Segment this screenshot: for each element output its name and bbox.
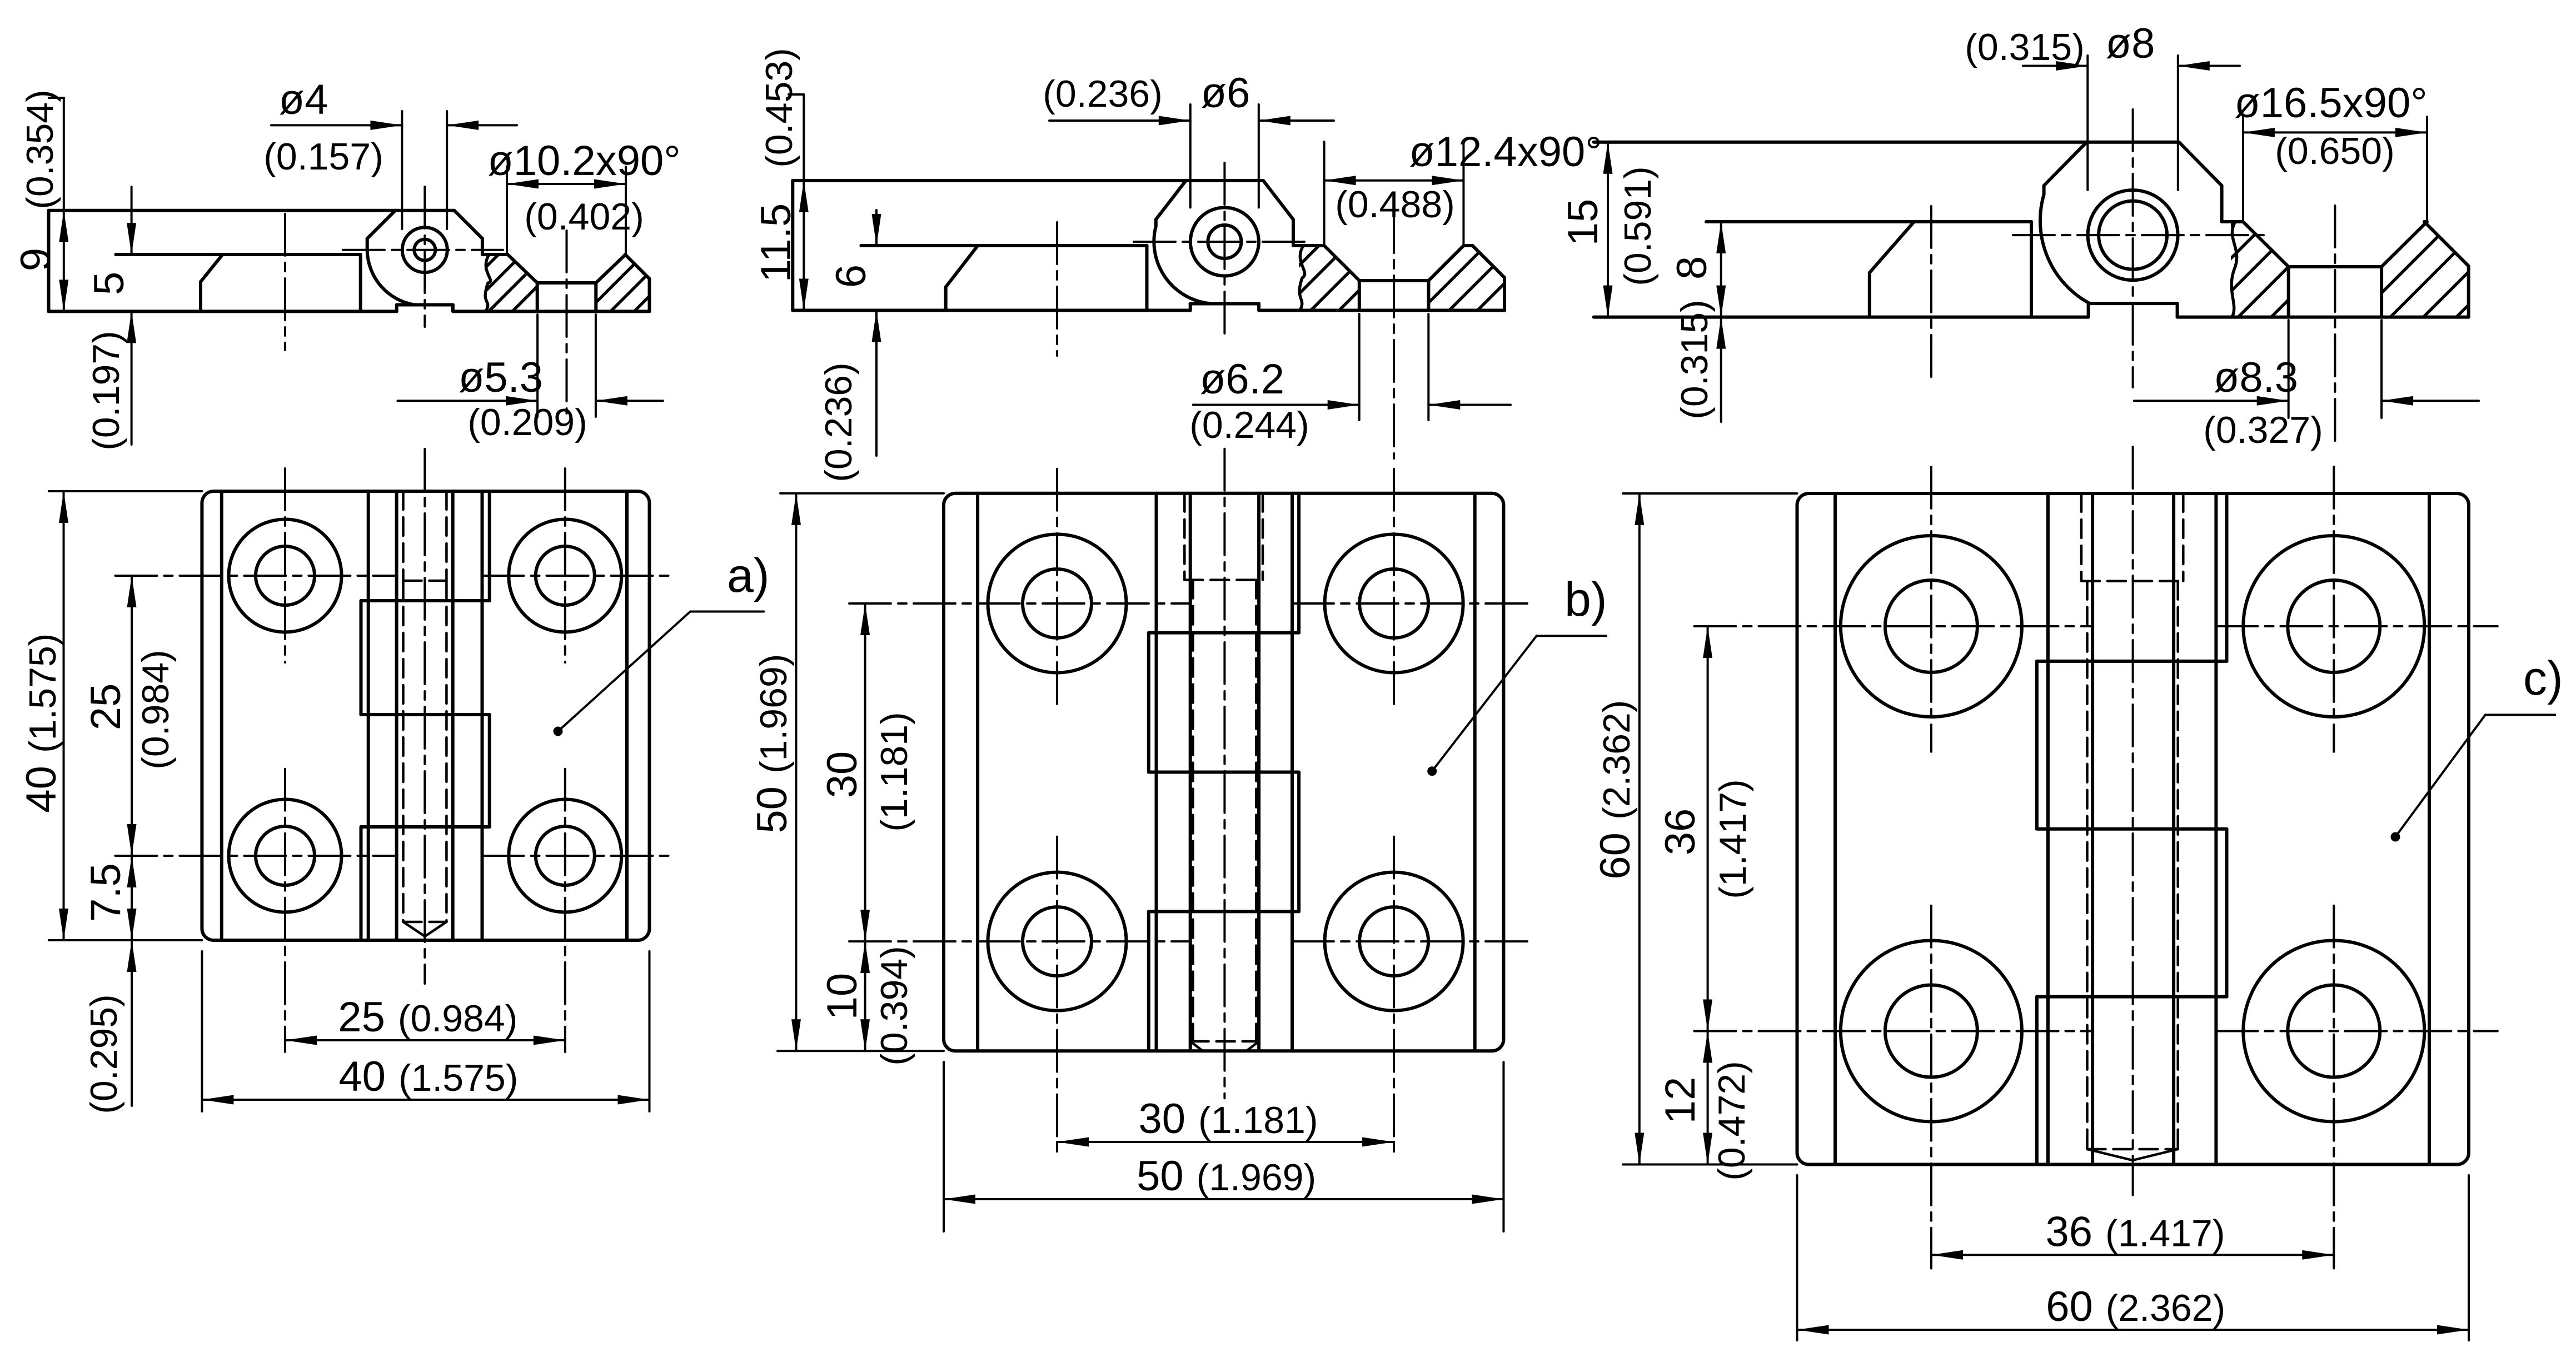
- plan1 dim 25 (0.984) bottom: [285, 1039, 565, 1041]
- countersink silhouette chamfer: [1870, 222, 1914, 273]
- svg-text:11.5: 11.5: [753, 203, 800, 282]
- dim phi12.4x90 (0.488): [1323, 142, 1326, 246]
- knuckle segment joints: [1149, 631, 1299, 635]
- svg-text:(0.197): (0.197): [85, 331, 127, 450]
- dim 5 (0.197) left: [131, 187, 133, 255]
- svg-text:36: 36: [1657, 809, 1704, 856]
- hinge leaf top outline: [49, 209, 396, 212]
- knuckle slot edges: [2046, 493, 2050, 1165]
- hinge pin: [402, 227, 447, 272]
- svg-text:60(2.362): 60(2.362): [1592, 700, 1639, 880]
- svg-text:(0.209): (0.209): [467, 401, 587, 443]
- dim phi8 (0.315): [2086, 56, 2089, 190]
- leaf fold lines: [976, 493, 979, 1051]
- plan view hinge body outline: [1797, 493, 2469, 1165]
- plan2 dim 30 (1.181) bottom: [1057, 1141, 1394, 1143]
- svg-text:c): c): [2523, 652, 2563, 705]
- plan1 dim (0.295) left: [131, 940, 133, 1106]
- svg-text:36(1.417): 36(1.417): [2046, 1208, 2225, 1255]
- svg-text:ø10.2x90°: ø10.2x90°: [487, 137, 680, 184]
- plan2 dim 30 (1.181) left: [864, 603, 866, 941]
- svg-text:(0.354): (0.354): [19, 89, 61, 209]
- plan view hinge body outline: [202, 491, 649, 940]
- svg-text:(0.591): (0.591): [1617, 166, 1659, 286]
- countersunk hole section: [508, 255, 537, 283]
- sectioned leaf (hatched): [482, 253, 508, 256]
- countersink bottom shelf: [537, 281, 596, 285]
- bottom surface with notch: [1594, 316, 2089, 319]
- knuckle outline: [367, 211, 396, 239]
- left leaf end edge: [2030, 222, 2033, 317]
- plan3 dim 60 (2.362) bottom: [1796, 1175, 1798, 1340]
- dim 8 (0.315) left: [1720, 222, 1722, 317]
- plan3 dim 36 (1.417) bottom: [1931, 1254, 2334, 1256]
- countersink bottom shelf: [2289, 265, 2381, 268]
- centre lines cs1: [423, 187, 426, 327]
- svg-text:(0.315): (0.315): [1965, 26, 2084, 68]
- svg-text:15: 15: [1559, 199, 1607, 246]
- leader b): [1427, 766, 1437, 776]
- knuckle slot edges: [367, 491, 370, 940]
- svg-text:b): b): [1564, 573, 1607, 626]
- svg-text:(0.327): (0.327): [2203, 409, 2323, 451]
- plan1 dim 7.5 left: [131, 856, 133, 940]
- leaf top surface line: [116, 253, 360, 256]
- svg-text:60(2.362): 60(2.362): [2046, 1283, 2225, 1330]
- svg-text:50(1.969): 50(1.969): [1137, 1153, 1316, 1200]
- plan1 dim 40 (1.575) left: [49, 490, 202, 492]
- svg-text:8: 8: [1668, 256, 1716, 280]
- svg-text:(0.453): (0.453): [758, 48, 800, 167]
- knuckle slot edges: [1155, 493, 1158, 1051]
- hole centre lines: [849, 602, 1190, 605]
- svg-text:ø6: ø6: [1201, 69, 1250, 117]
- hidden pin/thread lines: [2080, 493, 2083, 581]
- dim 15 (0.591) left: [1607, 142, 1609, 317]
- pin thread drill tip: [403, 922, 425, 936]
- left leaf end edge: [1145, 246, 1149, 311]
- hole centre lines: [115, 575, 396, 577]
- mounting holes: [988, 535, 1127, 673]
- svg-text:(1.417): (1.417): [1712, 779, 1754, 899]
- mounting holes: [229, 520, 342, 632]
- plan view hinge body outline: [944, 493, 1503, 1051]
- knuckle outline: [1156, 181, 1186, 219]
- dim phi6.2 (0.244): [1358, 314, 1361, 420]
- countersink silhouette chamfer: [201, 255, 223, 282]
- hidden pin/thread lines: [1183, 493, 1186, 580]
- barrel centre line: [2132, 447, 2134, 1195]
- barrel centre line: [1223, 449, 1225, 1099]
- barrel centre line: [423, 449, 426, 984]
- dim phi16.5x90 (0.650): [2242, 117, 2244, 222]
- sectioned leaf (hatched): [1293, 244, 1324, 247]
- svg-text:(0.402): (0.402): [524, 196, 644, 238]
- svg-text:9: 9: [12, 248, 59, 271]
- svg-text:ø6.2: ø6.2: [1200, 356, 1284, 403]
- left end edge: [791, 181, 794, 311]
- hinge pin: [2088, 190, 2178, 280]
- svg-text:10: 10: [819, 973, 866, 1020]
- svg-text:(0.984): (0.984): [134, 650, 177, 769]
- leaf fold lines: [1833, 493, 1837, 1165]
- svg-text:6: 6: [828, 265, 875, 288]
- dim phi5.3 (0.209): [536, 315, 539, 417]
- knuckle outline: [2044, 142, 2087, 186]
- dim 11.5 (0.453) left: [789, 93, 804, 96]
- knuckle segment joints: [2037, 660, 2227, 663]
- left leaf end edge: [359, 255, 362, 311]
- svg-text:5: 5: [86, 272, 133, 295]
- svg-text:(0.295): (0.295): [83, 994, 125, 1114]
- hinge leaf top outline: [793, 179, 1186, 182]
- svg-text:(0.244): (0.244): [1189, 404, 1309, 446]
- svg-text:(0.394): (0.394): [873, 946, 915, 1065]
- hole centre lines: [1695, 625, 2093, 627]
- plan3 dim 36 (1.417) left: [1707, 626, 1709, 1031]
- svg-text:40(1.575): 40(1.575): [18, 633, 65, 813]
- pin thread drill tip: [2087, 1149, 2133, 1160]
- bottom surface with notch: [49, 310, 397, 313]
- svg-text:a): a): [727, 549, 769, 602]
- svg-text:(0.472): (0.472): [1711, 1061, 1753, 1180]
- dim 6 (0.236) left: [875, 210, 878, 246]
- plan2 dim 50 (1.969) left: [780, 492, 944, 495]
- svg-text:(0.236): (0.236): [818, 362, 860, 482]
- svg-text:30(1.181): 30(1.181): [1139, 1095, 1318, 1143]
- dim phi10.2x90 (0.402): [506, 167, 508, 253]
- dim phi8.3 (0.327): [2288, 320, 2290, 418]
- hinge leaf top outline: [1594, 141, 2087, 144]
- svg-text:25: 25: [82, 684, 129, 731]
- svg-text:(0.650): (0.650): [2275, 130, 2394, 172]
- svg-text:(0.236): (0.236): [1043, 73, 1162, 115]
- svg-text:ø8: ø8: [2106, 20, 2155, 67]
- svg-text:40(1.575): 40(1.575): [338, 1053, 518, 1100]
- plan3 dim 60 (2.362) left: [1623, 492, 1797, 495]
- svg-text:ø8.3: ø8.3: [2214, 354, 2298, 401]
- svg-text:7.5: 7.5: [82, 863, 129, 922]
- plan3 dim 12 (0.472) left: [1707, 1031, 1709, 1165]
- svg-text:ø4: ø4: [279, 76, 328, 123]
- leader a): [554, 727, 563, 736]
- hidden pin/thread lines: [402, 491, 405, 581]
- hinge pin: [1190, 208, 1259, 276]
- svg-text:ø12.4x90°: ø12.4x90°: [1409, 128, 1602, 176]
- svg-text:(1.181): (1.181): [873, 712, 915, 831]
- plan1 dim 40 (1.575) bottom: [201, 951, 203, 1111]
- bottom surface with notch: [793, 309, 1190, 312]
- centre lines cs3: [2132, 109, 2134, 387]
- leaf fold lines: [220, 491, 223, 940]
- svg-text:(0.488): (0.488): [1335, 183, 1454, 226]
- left end edge: [47, 211, 51, 312]
- svg-text:25(0.984): 25(0.984): [338, 994, 517, 1041]
- leader c): [2391, 832, 2400, 842]
- svg-text:(0.315): (0.315): [1673, 300, 1716, 419]
- countersunk hole section: [1324, 246, 1359, 281]
- plan2 dim 50 (1.969) bottom: [943, 1062, 945, 1231]
- leaf top surface line: [1706, 220, 2031, 223]
- countersunk hole section: [2243, 222, 2289, 267]
- pin thread drill tip: [1190, 1040, 1259, 1043]
- svg-text:ø5.3: ø5.3: [459, 354, 543, 401]
- countersink silhouette chamfer: [946, 246, 978, 287]
- leaf top surface line: [861, 244, 1147, 247]
- sectioned leaf (hatched): [2222, 220, 2243, 223]
- plan1 dim 25 (0.984) left: [131, 576, 133, 856]
- svg-text:50(1.969): 50(1.969): [749, 654, 796, 834]
- plan2 dim 10 (0.394) left: [864, 941, 866, 1051]
- countersink bottom shelf: [1359, 279, 1429, 282]
- svg-text:ø16.5x90°: ø16.5x90°: [2234, 79, 2427, 127]
- svg-text:(0.157): (0.157): [263, 136, 383, 178]
- dim 9 (0.354) left: [49, 97, 64, 99]
- centre lines cs2: [1223, 163, 1225, 333]
- dim phi6 (0.236): [1189, 104, 1192, 208]
- svg-text:30: 30: [819, 751, 866, 799]
- dim phi4 (0.157): [401, 111, 403, 229]
- mounting holes: [1841, 536, 2022, 717]
- svg-text:12: 12: [1657, 1077, 1704, 1124]
- knuckle segment joints: [361, 599, 490, 602]
